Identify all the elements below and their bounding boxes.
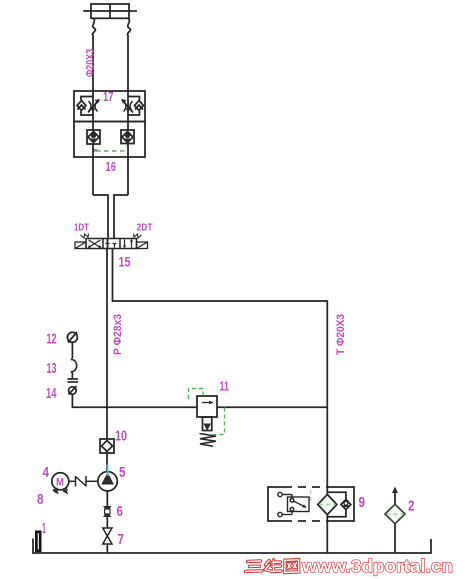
spring left (15) — [81, 234, 89, 239]
wire A line through box17 left — [92, 91, 94, 130]
bypass check valve (9) — [341, 500, 351, 510]
svg-text:15: 15 — [119, 254, 131, 270]
svg-text:6: 6 — [117, 503, 124, 520]
valve 6 — [103, 506, 112, 517]
pilot check valve right (16) — [121, 130, 134, 144]
spring right (15) — [134, 234, 142, 239]
wire gauge branch to P — [72, 394, 107, 407]
switch sense line green — [310, 490, 312, 503]
svg-text:12: 12 — [47, 331, 57, 348]
svg-text:10: 10 — [115, 428, 127, 445]
wire B line through box17 right — [127, 91, 129, 130]
clogging switch (9) — [278, 492, 309, 516]
pilot check valve left (16) — [87, 130, 100, 144]
air filter 2 diamond — [385, 504, 405, 523]
svg-text:1DT: 1DT — [74, 223, 89, 234]
relief valve 11 poppet — [203, 417, 212, 431]
bypass loop (9) — [327, 492, 346, 499]
svg-text:8: 8 — [37, 491, 44, 508]
check valve loop left (17) — [77, 97, 93, 116]
cylinder right wall — [127, 18, 130, 91]
wire left from box16 down — [92, 144, 94, 195]
relief valve 11 pilot line green — [189, 389, 204, 402]
wire P line vertical — [106, 249, 108, 473]
gauge coil 13 — [71, 358, 77, 373]
wire pump to valve 6 — [106, 491, 108, 507]
relief valve 11 body — [197, 396, 217, 417]
wire right from box16 down — [127, 144, 129, 196]
wire relief rail P to valve 11 — [107, 406, 197, 408]
wire jog left to valve A port — [93, 195, 108, 239]
box 17 outline — [74, 91, 145, 122]
svg-text:16: 16 — [106, 159, 117, 174]
valve 15 through line — [107, 239, 109, 249]
solenoid right (2DT) — [137, 242, 148, 249]
tank corner wire — [33, 539, 431, 554]
solenoid left (1DT) — [75, 242, 86, 249]
svg-text:2DT: 2DT — [137, 223, 153, 234]
svg-text:13: 13 — [47, 360, 57, 377]
wire T line from valve — [113, 249, 328, 554]
valve 15 right position arrows (parallel) — [123, 239, 133, 249]
tank 1 — [35, 531, 42, 553]
throttle valve left (17) — [88, 99, 100, 113]
gauge isolator 14 valve circle — [69, 386, 77, 395]
pilot line green dashed (16) — [92, 144, 129, 153]
box 9 outline — [268, 487, 354, 521]
box 16 outline — [74, 122, 145, 158]
svg-text:T Φ20X3: T Φ20X3 — [335, 314, 347, 355]
shutoff valve 7 — [103, 528, 112, 544]
svg-text:1: 1 — [42, 520, 46, 537]
wire filter 2 to rail — [394, 524, 396, 553]
motor mount marks — [54, 488, 69, 494]
wire valve7 to tank rail — [106, 544, 108, 553]
cylinder left wall — [92, 18, 95, 91]
directional valve 15 body — [86, 239, 137, 249]
cylinder rod line — [83, 10, 137, 12]
pressure gauge 12 — [67, 332, 77, 343]
pump top cyan mark — [107, 465, 109, 477]
svg-text:11: 11 — [220, 379, 230, 394]
svg-text:17: 17 — [103, 89, 114, 104]
svg-text:5: 5 — [119, 464, 126, 481]
pump 5 — [98, 472, 117, 491]
motor 4 — [52, 473, 69, 490]
filter 9 diamond — [318, 494, 337, 514]
relief valve 11 drain line green — [212, 408, 225, 435]
wire relief rail valve 11 to T — [217, 406, 327, 408]
svg-text:www.3dportal.cn: www.3dportal.cn — [301, 556, 453, 576]
svg-text:4: 4 — [43, 464, 50, 481]
svg-text:M: M — [56, 477, 64, 489]
valve 15 left position arrows (crossed) — [88, 240, 102, 248]
gauge isolator 14 bars — [68, 379, 79, 382]
throttle valve right (17) — [121, 99, 133, 113]
svg-text:14: 14 — [46, 385, 57, 402]
svg-text:P Φ28x3: P Φ28x3 — [112, 314, 124, 355]
wire jog right to valve B port — [114, 195, 128, 239]
check valve loop right (17) — [128, 97, 144, 116]
svg-text:9: 9 — [359, 494, 366, 511]
cylinder piston rectangle — [91, 4, 129, 18]
air filter 2 arrow — [392, 487, 398, 505]
svg-text:Φ20X3: Φ20X3 — [85, 49, 97, 77]
valve 15 centre position (closed) — [106, 240, 117, 248]
wire coil to isolator — [71, 373, 73, 379]
wire gauge to coil — [71, 342, 73, 358]
svg-text:2: 2 — [408, 498, 415, 515]
check valve 10 — [100, 439, 114, 453]
wire valve6 to valve7 — [106, 517, 108, 528]
shaft coupling — [69, 476, 98, 487]
svg-text:7: 7 — [118, 531, 125, 548]
relief valve 11 spring — [200, 434, 217, 447]
watermark CJK glyphs (drawn) — [246, 560, 299, 573]
